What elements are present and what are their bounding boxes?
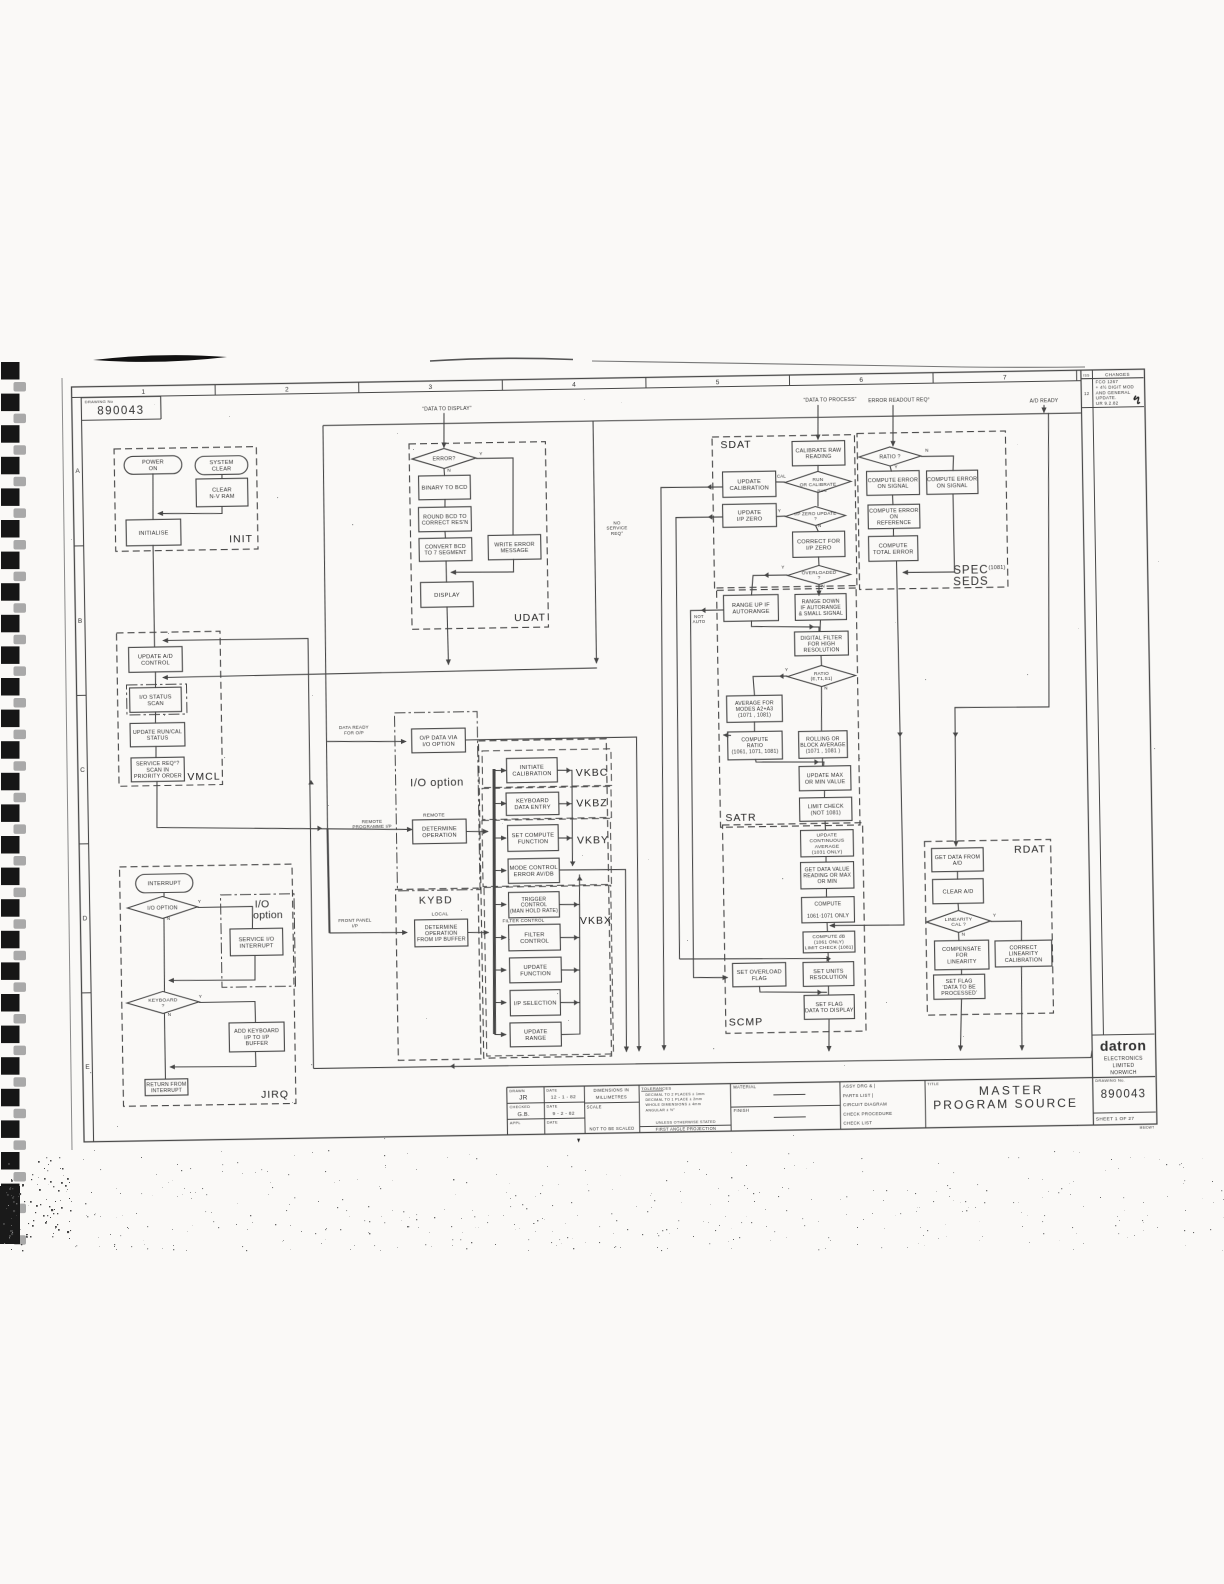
svg-text:I/O option: I/O option (410, 777, 464, 790)
svg-text:Y: Y (785, 667, 788, 672)
svg-text:LINEARITY: LINEARITY (947, 959, 977, 965)
wire (592, 421, 597, 663)
wire (495, 1001, 507, 1003)
process box SERVICE I/O INTERRUPT (230, 928, 283, 956)
svg-text:BUFFER: BUFFER (246, 1041, 269, 1047)
svg-text:12 - 1 - 82: 12 - 1 - 82 (551, 1094, 576, 1100)
wire (960, 998, 963, 1050)
svg-text:Y: Y (778, 508, 781, 513)
wire (154, 712, 156, 724)
arrowhead (574, 1000, 579, 1006)
wire (818, 556, 820, 565)
svg-text:SYSTEM: SYSTEM (209, 460, 233, 466)
arrowhead (809, 624, 814, 630)
wire (892, 528, 894, 537)
svg-text:CONTINUOUS: CONTINUOUS (810, 838, 845, 845)
svg-text:UPDATE: UPDATE (817, 832, 838, 838)
wire (466, 737, 642, 1054)
svg-text:UPDATE: UPDATE (524, 965, 548, 971)
svg-text:A/D READY: A/D READY (1030, 398, 1059, 404)
process box CLEAR N-V RAM (196, 478, 248, 507)
process box SET UNITS RESOLUTION (803, 962, 854, 987)
section boundary box (117, 631, 223, 786)
svg-text:I/O OPTION: I/O OPTION (422, 742, 455, 749)
svg-text:DRAWN: DRAWN (509, 1089, 525, 1093)
arrowhead (570, 861, 576, 866)
sheet border frame (72, 369, 1157, 1142)
wire (163, 638, 315, 1071)
svg-text:CLEAR: CLEAR (212, 466, 232, 472)
svg-text:N: N (962, 931, 966, 936)
svg-text:G.B.: G.B. (518, 1112, 530, 1118)
arrowhead (574, 902, 579, 908)
process box SET COMPUTE FUNCTION (507, 825, 558, 852)
wire (561, 1001, 580, 1004)
svg-text:INIT: INIT (229, 533, 253, 545)
wire (451, 559, 514, 573)
section boundary box (717, 586, 860, 828)
process box UPDATE A/D CONTROL (129, 647, 183, 673)
process box DETERMINE OPERATION FROM I/P BUFFER (415, 919, 468, 947)
svg-text:datron: datron (1100, 1037, 1147, 1054)
process box UPDATE RANGE (510, 1022, 561, 1047)
wire (330, 932, 408, 934)
section boundary box (220, 894, 295, 988)
terminator oval POWER ON (124, 456, 182, 475)
decision diamond KEYBOARD ? (127, 991, 199, 1014)
svg-text:VKBC: VKBC (576, 767, 609, 780)
svg-text:I/P SELECTION: I/P SELECTION (514, 1000, 557, 1007)
wire (444, 531, 447, 539)
svg-text:FLAG: FLAG (752, 976, 767, 982)
svg-text:(1061 ONLY): (1061 ONLY) (814, 939, 844, 946)
wire (751, 619, 819, 633)
arrowhead (701, 607, 706, 613)
wire (560, 869, 629, 1053)
svg-text:INITIATE: INITIATE (520, 765, 544, 771)
svg-text:N-V RAM: N-V RAM (209, 494, 234, 500)
wire (313, 1050, 1092, 1070)
wire (327, 828, 329, 933)
svg-text:?: ? (814, 516, 817, 521)
process box DETERMINE OPERATION (412, 819, 466, 844)
process box ROLLING OR BLOCK AVERAGE (1071 , 1081 ) (799, 731, 848, 759)
process box COMPUTE ERROR ON REFERENCE (868, 504, 920, 529)
svg-text:RUN: RUN (817, 488, 826, 493)
wire (494, 903, 506, 905)
wire (495, 936, 507, 938)
wire (723, 734, 731, 737)
svg-text:PROCESSED’: PROCESSED’ (941, 990, 977, 997)
svg-text:N: N (818, 523, 822, 528)
wire (495, 802, 507, 804)
decision diamond LINEARITY CAL ? (926, 910, 990, 933)
wire (820, 655, 823, 666)
process box COMPUTE 10611071 ONLY (802, 897, 855, 923)
wire (561, 969, 579, 972)
decision diamond I/P ZERO UPDATE ? (785, 506, 845, 526)
svg-text:(E,T1,S1): (E,T1,S1) (811, 676, 833, 681)
wire (164, 1014, 165, 1080)
wire (755, 758, 824, 768)
svg-text:RDAT: RDAT (1014, 844, 1046, 857)
svg-text:A: A (75, 468, 80, 475)
svg-text:FILTER CONTROL: FILTER CONTROL (502, 918, 544, 924)
wire (443, 468, 446, 476)
svg-text:OR MIN: OR MIN (817, 879, 837, 885)
process box COMPUTE TOTAL ERROR (869, 536, 919, 562)
svg-text:UPDATE: UPDATE (737, 479, 761, 485)
process box WRITE ERROR MESSAGE (488, 535, 541, 560)
wire (949, 413, 1056, 846)
svg-text:COMPUTE: COMPUTE (814, 901, 841, 907)
process box AVERAGE FOR MODES A2+A3 (1071 , 1081) (727, 695, 783, 722)
svg-text:ERROR AV/DB: ERROR AV/DB (514, 872, 554, 879)
wire (221, 474, 223, 479)
svg-text:DATE: DATE (546, 1088, 557, 1092)
arrowhead (566, 768, 571, 774)
svg-text:CALIBRATION: CALIBRATION (1005, 957, 1043, 964)
process box CORRECT LINEARITY CALIBRATION (995, 940, 1052, 967)
svg-text:option: option (253, 909, 283, 921)
wire (495, 869, 507, 871)
svg-text:CAL ?: CAL ? (951, 922, 966, 928)
arrowhead (779, 673, 784, 679)
process box SET FLAG DATA TO DISPLAY (804, 995, 854, 1020)
section boundary box (482, 749, 611, 788)
svg-text:(1071 , 1081 ): (1071 , 1081 ) (806, 748, 841, 755)
svg-text:VKBZ: VKBZ (576, 797, 608, 810)
svg-text:C: C (80, 767, 85, 774)
wire (327, 740, 406, 743)
svg-text:PRIORITY ORDER: PRIORITY ORDER (134, 773, 182, 780)
svg-text:ERROR READOUT REQ°: ERROR READOUT REQ° (868, 397, 930, 404)
svg-text:RATIO ?: RATIO ? (879, 454, 900, 460)
wire (163, 668, 597, 678)
process box GET DATA VALUE READING OR MAX OR MIN (801, 862, 854, 889)
wire (557, 770, 573, 866)
process box ADD KEYBOARD I/P TO I/P BUFFER (229, 1022, 284, 1052)
wire (817, 465, 819, 472)
svg-text:E: E (85, 1064, 90, 1071)
svg-text:TITLE: TITLE (927, 1082, 939, 1086)
wire (445, 560, 447, 582)
svg-text:PROGRAM SOURCE: PROGRAM SOURCE (933, 1096, 1078, 1112)
svg-text:Y: Y (781, 565, 784, 570)
process box TRIGGER CONTROL (MAN HOLD RATE) (508, 892, 559, 918)
wire (827, 985, 829, 995)
wire (559, 875, 582, 1035)
svg-text:N: N (925, 448, 929, 453)
svg-text:(1031 ONLY): (1031 ONLY) (812, 849, 843, 856)
process box MODE CONTROL ERROR AV/DB (508, 858, 559, 883)
wire (154, 672, 156, 689)
svg-text:SATR: SATR (725, 812, 756, 825)
wire (468, 931, 489, 934)
process box CLEAR A/D (933, 879, 984, 904)
wire (153, 545, 155, 647)
wire (824, 820, 826, 830)
wire (890, 466, 891, 472)
arrowhead (707, 484, 712, 490)
svg-text:?: ? (818, 575, 821, 580)
section boundary box (126, 684, 186, 715)
svg-text:Y: Y (199, 994, 202, 999)
wire (494, 837, 506, 839)
svg-text:MESSAGE: MESSAGE (501, 548, 529, 554)
wire (825, 856, 827, 863)
svg-text:REMOTE: REMOTE (423, 813, 445, 819)
section boundary box (482, 818, 611, 886)
svg-text:DATE: DATE (547, 1120, 558, 1124)
svg-text:BINARY TO BCD: BINARY TO BCD (422, 485, 468, 492)
svg-text:(1061, 1071, 1081): (1061, 1071, 1081) (732, 749, 779, 756)
svg-text:OPERATION: OPERATION (422, 833, 457, 840)
wire (476, 458, 514, 536)
process box INITIALISE (126, 519, 181, 546)
wire (447, 606, 448, 664)
svg-text:(MAN HOLD RATE): (MAN HOLD RATE) (510, 908, 558, 915)
process box SET FLAG DATA TO BE PROCESSED (934, 974, 985, 999)
wire (751, 575, 788, 596)
svg-text:I/O OPTION: I/O OPTION (147, 905, 177, 912)
svg-text:NOT TO BE SCALED: NOT TO BE SCALED (589, 1126, 634, 1132)
svg-text:D: D (83, 916, 88, 923)
svg-text:APPL: APPL (510, 1121, 521, 1125)
svg-text:UDAT: UDAT (514, 612, 546, 625)
process box COMPUTE dB (1061 ONLY) LIMIT CHECK (1081) (803, 931, 855, 953)
process box KEYBOARD DATA ENTRY (506, 792, 559, 815)
section boundary box (478, 739, 611, 1058)
wire (826, 922, 828, 932)
svg-text:B: B (78, 618, 83, 625)
wire (323, 413, 1081, 426)
svg-text:“DATA TO PROCESS”: “DATA TO PROCESS” (803, 397, 856, 404)
decision diamond RATIO ? (859, 446, 921, 466)
wire (558, 837, 572, 839)
svg-text:FROM I/P BUFFER: FROM I/P BUFFER (417, 937, 466, 944)
arrowhead (817, 989, 822, 995)
svg-text:Y: Y (993, 913, 996, 918)
svg-text:1061·1071 ONLY: 1061·1071 ONLY (807, 913, 850, 920)
wire (494, 769, 506, 771)
process box UPDATE CALIBRATION (723, 471, 777, 497)
process box CORRECT FOR I/P ZERO (793, 531, 846, 557)
terminator oval INTERRUPT (136, 874, 194, 893)
svg-text:FOR: FOR (956, 953, 968, 959)
process box DIGITAL FILTER FOR HIGH RESOLUTION (794, 631, 848, 656)
wire (828, 1018, 829, 1051)
process box CONVERT BCD TO 7 SEGMENT (419, 538, 472, 562)
svg-text:STATUS: STATUS (147, 736, 169, 742)
svg-text:CHECK LIST: CHECK LIST (843, 1120, 872, 1125)
svg-text:JR: JR (519, 1094, 528, 1101)
svg-text:CLEAR A/D: CLEAR A/D (942, 889, 973, 896)
svg-text:Y: Y (479, 451, 482, 456)
wire (991, 921, 1022, 942)
svg-text:ON: ON (149, 466, 158, 472)
wire (921, 456, 954, 472)
wire (827, 952, 829, 963)
svg-text:Y: Y (894, 464, 897, 469)
svg-text:ASSY DRG & |: ASSY DRG & | (843, 1083, 876, 1089)
wire (655, 486, 732, 1050)
section boundary box (114, 447, 258, 552)
svg-text:UR 9.2.82: UR 9.2.82 (1096, 401, 1119, 406)
svg-text:DRAWING No: DRAWING No (85, 399, 114, 404)
svg-text:INTERRUPT: INTERRUPT (151, 1088, 182, 1095)
svg-text:FINISH: FINISH (734, 1108, 750, 1113)
process box UPDATE I/P ZERO (723, 504, 777, 528)
wire (152, 473, 153, 520)
process box UPDATE MAX OR MIN VALUE (799, 766, 851, 791)
svg-text:ELECTRONICS: ELECTRONICS (1104, 1056, 1143, 1063)
svg-text:FILTER: FILTER (524, 932, 544, 938)
wire (759, 985, 827, 994)
svg-text:ON SIGNAL: ON SIGNAL (937, 483, 968, 490)
section boundary box (722, 823, 866, 1034)
wire (687, 610, 729, 978)
svg-text:ISS: ISS (1083, 374, 1090, 378)
svg-text:?: ? (161, 1003, 164, 1009)
wire (817, 492, 819, 506)
wire (1043, 405, 1045, 413)
svg-text:KEYBOARD: KEYBOARD (516, 798, 549, 805)
svg-text:A/D: A/D (953, 861, 963, 867)
svg-text:AVERAGE: AVERAGE (815, 844, 840, 850)
svg-text:I/P: I/P (352, 923, 358, 928)
wire (818, 584, 820, 595)
process box CALIBRATE RAW READING (792, 441, 845, 466)
wire (821, 758, 823, 767)
svg-text:SCMP: SCMP (729, 1016, 764, 1029)
svg-text:N: N (167, 916, 171, 921)
wire (321, 426, 330, 828)
svg-text:(NOT 1081): (NOT 1081) (811, 810, 841, 817)
svg-text:CLEAR: CLEAR (212, 487, 232, 493)
arrowhead (450, 1063, 455, 1069)
svg-text:OR MIN VALUE: OR MIN VALUE (805, 779, 846, 786)
svg-text:DISPLAY: DISPLAY (434, 592, 460, 598)
wire (444, 499, 446, 508)
svg-text:CORRECT RES'N: CORRECT RES'N (422, 520, 468, 527)
svg-text:OR CALIBRATE: OR CALIBRATE (800, 482, 837, 488)
wire (559, 803, 572, 805)
process box O/P DATA VIA I/O OPTION (412, 728, 466, 753)
svg-text:LOCAL: LOCAL (432, 911, 449, 917)
svg-text:VKBX: VKBX (580, 915, 612, 928)
wire (753, 676, 788, 696)
process box ROUND BCD TO CORRECT RESN (418, 507, 471, 532)
svg-text:SET OVERLOAD: SET OVERLOAD (737, 969, 782, 976)
svg-text:CONTROL: CONTROL (141, 661, 170, 667)
wire (960, 969, 962, 975)
svg-text:CAL: CAL (777, 473, 787, 478)
svg-text:CHANGES: CHANGES (1105, 372, 1130, 377)
wire (197, 906, 252, 929)
svg-text:CALIBRATION: CALIBRATION (730, 485, 769, 492)
process box RANGE UP IF AUTORANGE (723, 595, 778, 622)
svg-text:ERROR?: ERROR? (433, 456, 456, 462)
wire (819, 620, 822, 632)
decision diamond OVERLOADED ? (787, 565, 850, 585)
svg-text:FUNCTION: FUNCTION (520, 971, 551, 978)
svg-text:UPDATE: UPDATE (738, 510, 762, 516)
section boundary box (409, 442, 548, 630)
process box INITIATE CALIBRATION (506, 758, 557, 783)
wire (892, 495, 894, 506)
svg-text:READING: READING (806, 454, 832, 460)
wire (753, 721, 755, 732)
wire (199, 1002, 256, 1024)
process box DISPLAY (421, 582, 474, 608)
process box GET DATA FROM A/D (932, 848, 984, 872)
arrowhead (574, 967, 579, 973)
svg-text:REQ°: REQ° (611, 531, 623, 536)
svg-text:INTERRUPT: INTERRUPT (240, 943, 274, 950)
wire (559, 903, 579, 906)
svg-text:COMPUTE dB: COMPUTE dB (812, 934, 845, 941)
svg-text:Y: Y (198, 899, 201, 904)
svg-text:RESOLUTION: RESOLUTION (810, 975, 848, 982)
arrowhead (308, 780, 314, 785)
svg-text:LIMIT CHECK (1081): LIMIT CHECK (1081) (805, 945, 854, 952)
svg-text:3: 3 (429, 384, 433, 391)
arrowhead (317, 825, 322, 831)
svg-text:SDAT: SDAT (720, 439, 751, 452)
svg-text:REFERENCE: REFERENCE (877, 520, 912, 527)
wire (155, 746, 157, 758)
arrowhead (574, 935, 579, 941)
wire (561, 936, 580, 939)
svg-text:7: 7 (1003, 375, 1007, 382)
svg-text:9 - 2 - 82: 9 - 2 - 82 (553, 1111, 575, 1117)
wire (490, 769, 498, 1034)
svg-text:(1081): (1081) (988, 565, 1005, 571)
svg-text:N: N (168, 1012, 172, 1017)
wire (494, 969, 506, 971)
svg-text:VKBY: VKBY (577, 834, 609, 847)
svg-text:5: 5 (716, 379, 720, 386)
wire (170, 1051, 256, 1068)
section boundary box (120, 864, 296, 1106)
wire (1021, 966, 1023, 1050)
section boundary box (924, 839, 1053, 1015)
svg-text:890043: 890043 (97, 405, 145, 418)
svg-text:SCALE: SCALE (587, 1104, 602, 1109)
svg-text:TO 7 SEGMENT: TO 7 SEGMENT (424, 550, 467, 557)
svg-text:N: N (447, 468, 451, 473)
svg-text:VMCL: VMCL (187, 771, 220, 784)
process box RETURN FROM INTERRUPT (145, 1079, 188, 1096)
process box FILTER CONTROL (509, 924, 561, 951)
svg-text:MILLIMETRES: MILLIMETRES (596, 1094, 627, 1100)
svg-text:(1071 , 1081): (1071 , 1081) (738, 712, 771, 719)
svg-text:CONTROL: CONTROL (520, 939, 549, 945)
svg-text:6: 6 (859, 377, 863, 384)
svg-text:CHECK PROCEDURE: CHECK PROCEDURE (843, 1111, 892, 1117)
svg-text:PROGRAMME I/P: PROGRAMME I/P (352, 824, 391, 830)
process box I/P SELECTION (510, 990, 561, 1016)
wire (824, 560, 904, 926)
arrowhead (577, 876, 583, 881)
arrowhead (567, 835, 572, 841)
svg-text:CORRECT FOR: CORRECT FOR (797, 539, 840, 546)
process box RANGE DOWN IF AUTORANGE and SMALL SIGNAL (795, 594, 847, 621)
svg-text:RESOLUTION: RESOLUTION (803, 647, 839, 654)
wire (817, 405, 818, 440)
arrowhead (953, 732, 959, 737)
